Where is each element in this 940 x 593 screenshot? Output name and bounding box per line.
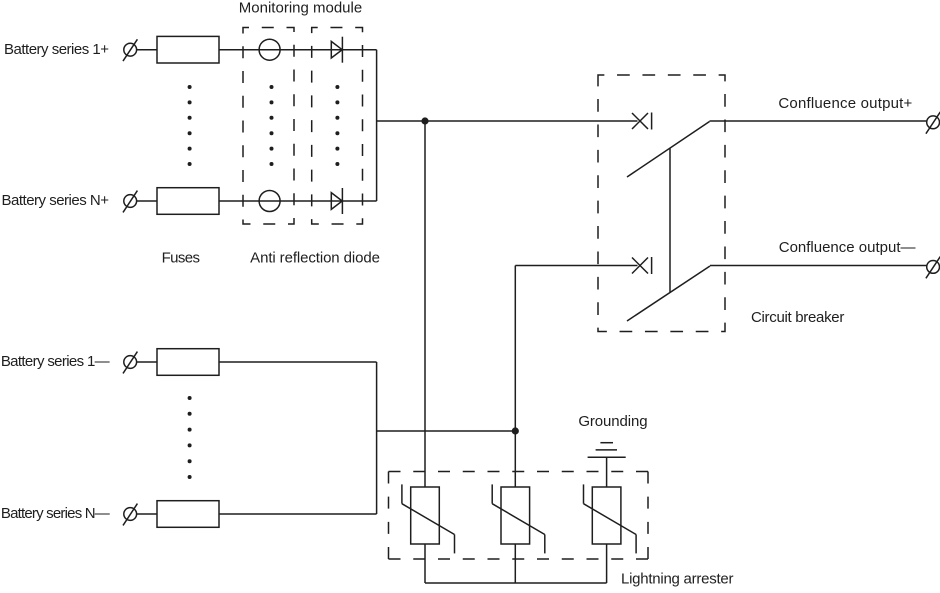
svg-text:Anti reflection diode: Anti reflection diode: [250, 250, 380, 267]
svg-text:Battery series 1+: Battery series 1+: [4, 41, 109, 58]
svg-text:Battery series 1—: Battery series 1—: [1, 353, 110, 370]
svg-text:Confluence output—: Confluence output—: [779, 239, 916, 256]
svg-text:Circuit breaker: Circuit breaker: [751, 309, 844, 326]
svg-text:Grounding: Grounding: [578, 413, 647, 430]
svg-text:Fuses: Fuses: [162, 250, 200, 267]
svg-text:Battery series N+: Battery series N+: [2, 192, 110, 209]
svg-text:Monitoring module: Monitoring module: [239, 0, 362, 16]
svg-text:Lightning arrester: Lightning arrester: [621, 571, 733, 588]
svg-text:Confluence output+: Confluence output+: [778, 95, 912, 112]
svg-text:Battery series N—: Battery series N—: [1, 505, 110, 522]
